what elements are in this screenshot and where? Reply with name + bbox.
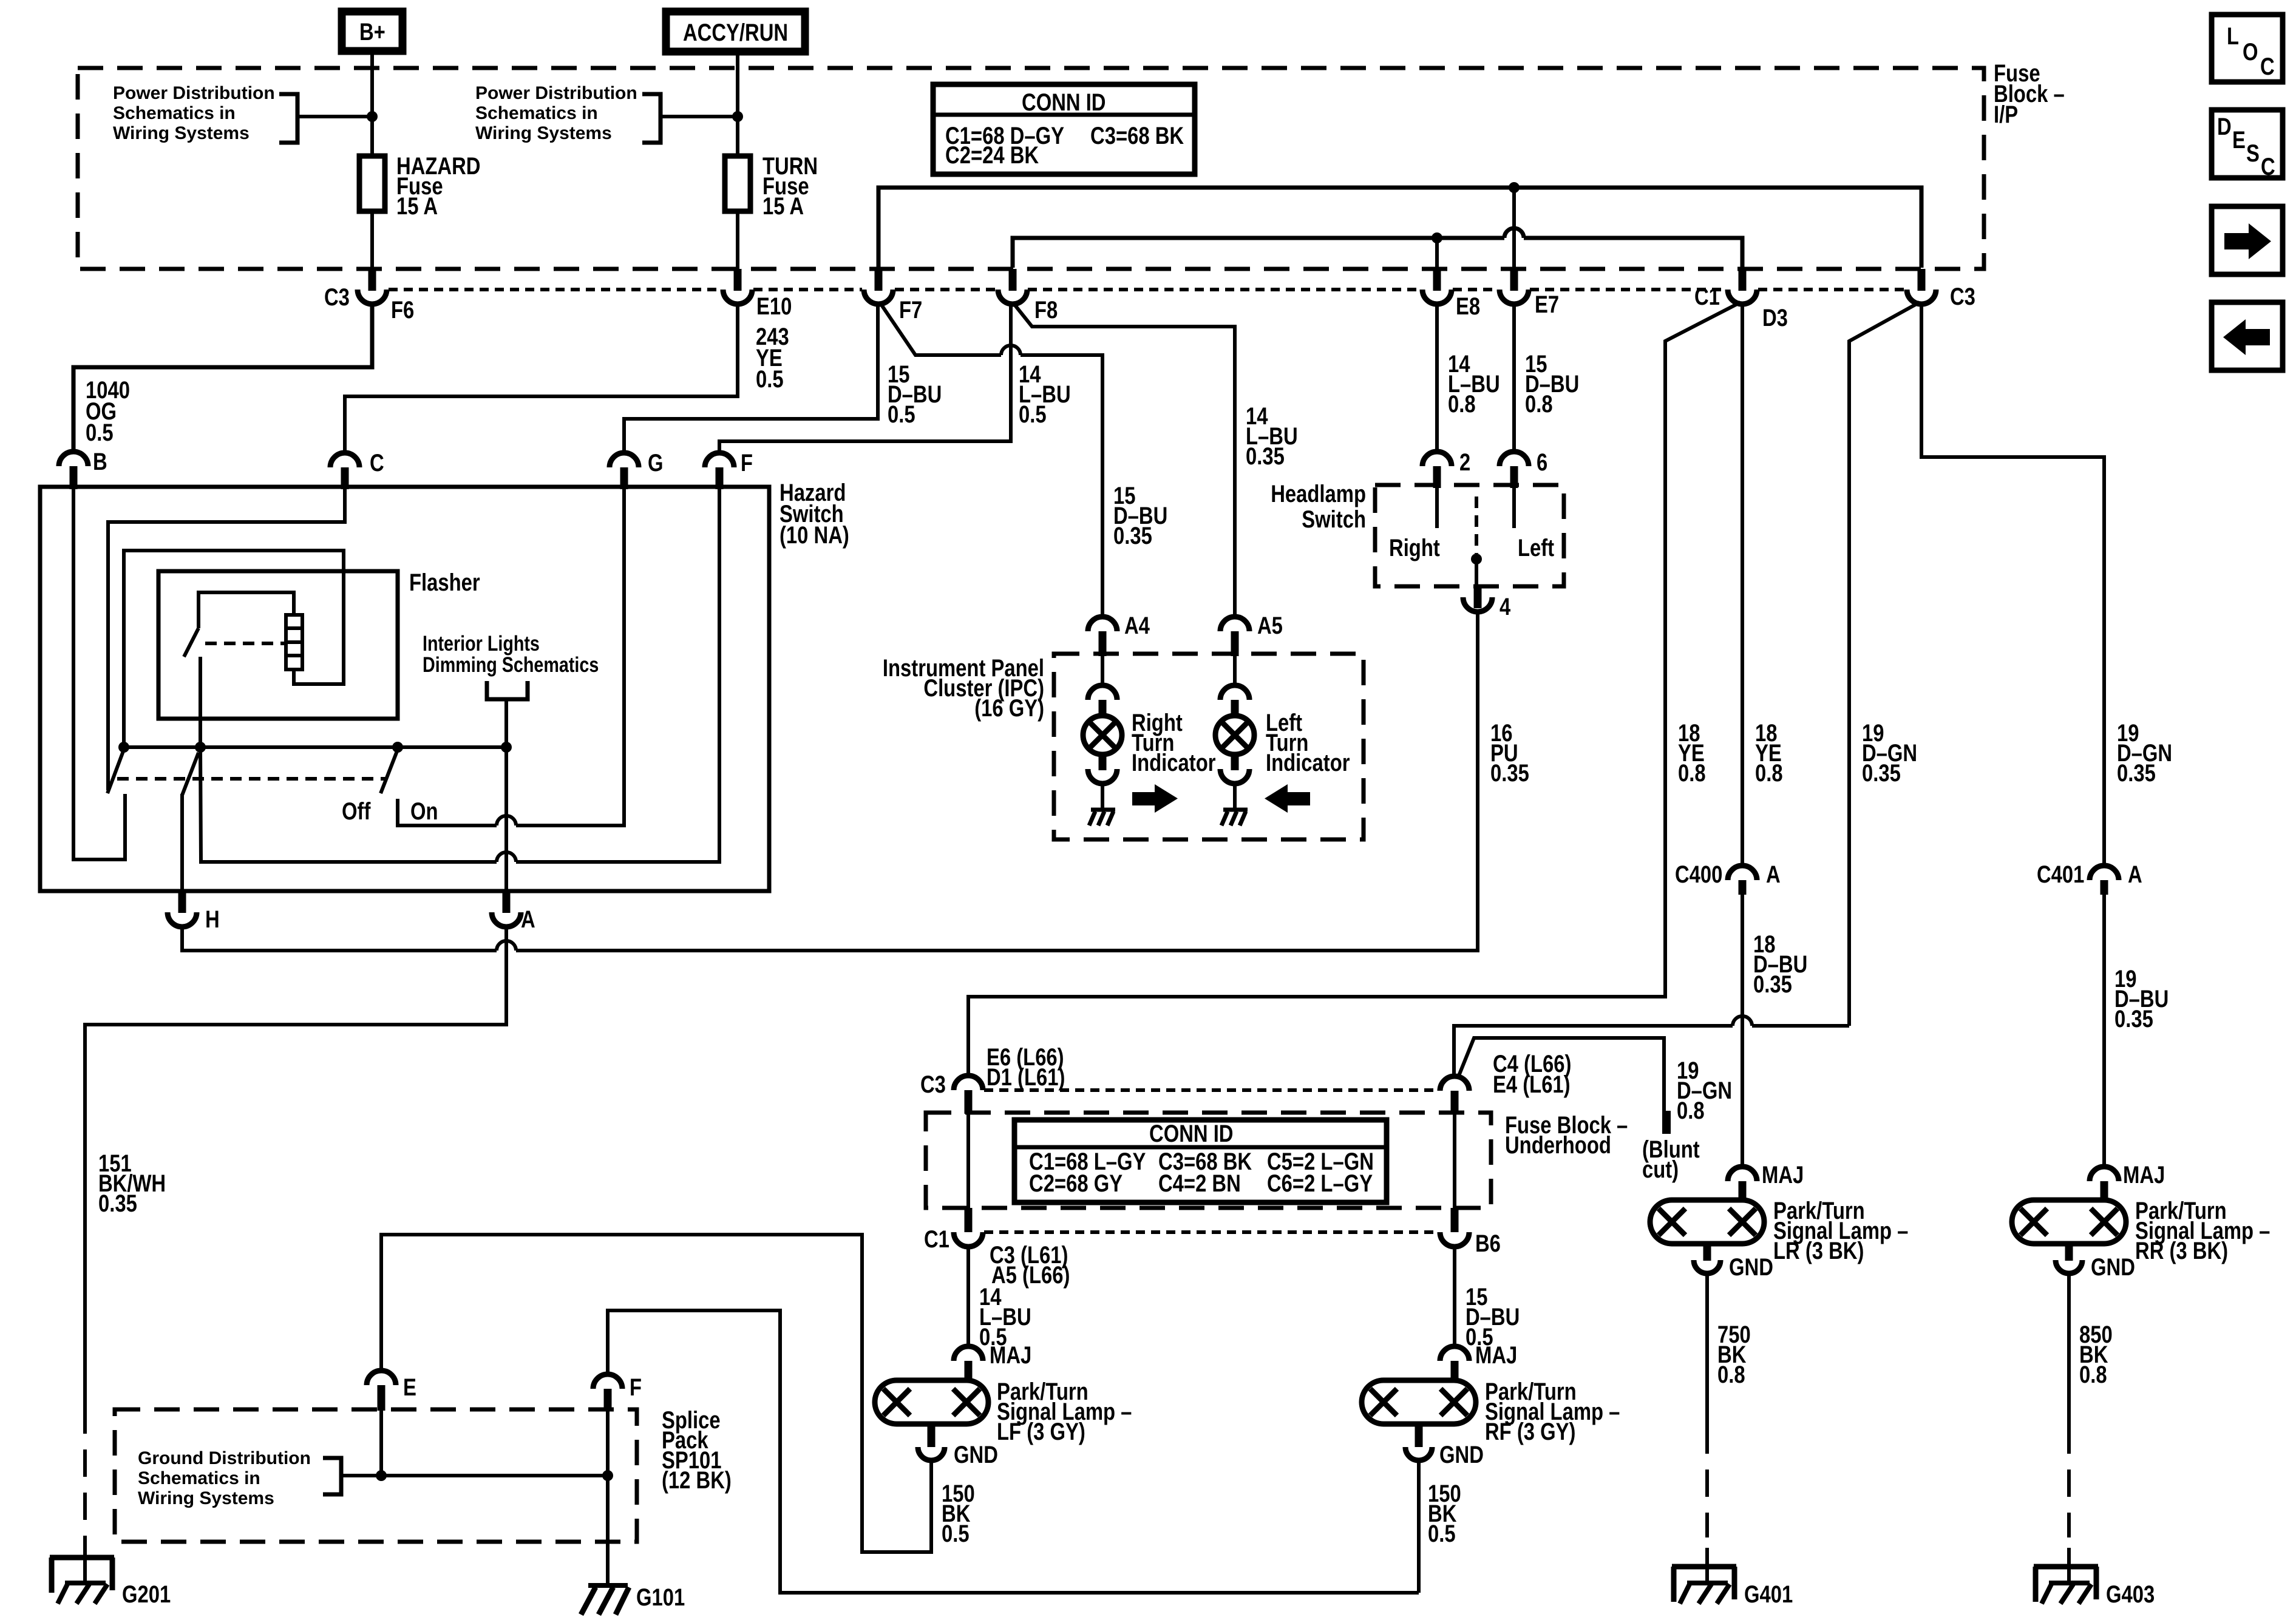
svg-text:H: H [205,906,220,933]
connector MAJ RF [1440,1342,1517,1381]
connector A5 [1220,612,1283,656]
svg-text:0.5: 0.5 [1019,401,1047,428]
connector GND RR [2056,1244,2135,1281]
wire E4 diagonal feed to blunt cut [1458,1038,1664,1111]
label 18 D-BU 0.35 [1753,931,1807,998]
connector 6 [1500,449,1547,488]
svg-text:GND: GND [954,1442,998,1468]
junction blade1 pivot [118,742,129,753]
svg-text:Dimming Schematics: Dimming Schematics [423,653,599,677]
flasher heater resistor [286,615,302,670]
connector MAJ LF [954,1342,1031,1381]
wire B inside to contact stub [73,489,125,859]
junction B+ feed [367,111,378,122]
svg-text:0.5: 0.5 [888,401,915,428]
wire blade2 to H [180,794,184,891]
wire E pin to splice bus [379,1409,383,1476]
wire bracket stem to A node [504,699,508,747]
headlamp contact stubs [1435,488,1439,528]
bracket right power distribution [642,94,661,143]
dotted row underhood top [984,1088,1439,1092]
label 15 D-BU 0.8 [1525,351,1579,418]
ground G401 [1672,1548,1793,1608]
connector C400 [1675,861,1781,895]
svg-text:Schematics in: Schematics in [475,103,598,123]
svg-text:C401: C401 [2037,861,2084,888]
svg-text:C3: C3 [920,1071,946,1098]
wire E7 up [1512,188,1516,270]
label Fuse Block - Underhood [1505,1112,1628,1159]
junction blade2 contact [195,742,206,753]
svg-text:E10: E10 [756,293,792,320]
svg-text:C3: C3 [1950,283,1975,310]
svg-text:G201: G201 [122,1581,171,1608]
connector GND LR [1694,1244,1773,1281]
lamp park/turn LF [875,1380,988,1424]
wire pin4 to H line [1476,612,1479,951]
connector E4 underhood top (C4/E4) [1440,1051,1571,1114]
label 18 YE 0.8 second [1755,720,1783,787]
svg-text:A5 (L66): A5 (L66) [991,1262,1070,1289]
svg-text:0.35: 0.35 [1490,760,1529,787]
svg-text:F7: F7 [899,297,922,324]
flasher box [158,571,398,719]
svg-text:C2=68 GY: C2=68 GY [1029,1170,1123,1197]
svg-text:I/P: I/P [1994,101,2018,128]
label 243 YE 0.5 [756,324,789,393]
ground G201 [50,1545,171,1608]
flasher blade [184,628,199,657]
svg-text:Flasher: Flasher [409,569,480,596]
wire LR dashed to G401 [1705,1426,1709,1537]
svg-text:0.35: 0.35 [1113,523,1152,549]
connector C1/D3 [1694,269,1788,331]
CONN ID table I/P [933,84,1195,174]
label Ground Distribution Schematics in Wiring Systems [138,1448,311,1508]
junction E8 on wire B [1432,232,1442,243]
wire GND RF to F loop bottom [1417,1460,1421,1593]
label 19 D-GN 0.35 second [2117,720,2172,787]
left turn indicator bulb [1215,656,1254,810]
wire H to headlamp pin4 line, hop over A [182,623,1478,951]
svg-text:GND: GND [1729,1254,1773,1281]
wire C1 down to C400 [1741,304,1744,866]
svg-text:E4 (L61): E4 (L61) [1493,1071,1571,1098]
svg-text:C1: C1 [924,1226,949,1253]
svg-text:C1: C1 [1694,283,1720,310]
label 1040 OG 0.5 [86,377,130,446]
label Splice Pack SP101 (12 BK) [662,1407,732,1494]
bracket left power distribution [279,94,297,143]
svg-text:0.35: 0.35 [2117,760,2156,787]
wire C400 down to LR lamp [1741,895,1744,1167]
wire A : F7 to C3 right [878,188,1921,268]
svg-text:Off: Off [342,798,371,825]
svg-text:(16 GY): (16 GY) [974,695,1044,722]
connector C1 underhood bottom [924,1208,1070,1289]
svg-text:D1 (L61): D1 (L61) [987,1064,1065,1091]
arrow right icon [1132,784,1178,813]
ground IPC right bulb [1089,810,1115,825]
flasher coil feed wire [199,592,294,628]
nav box DESC [2212,110,2283,180]
connector C401 [2037,861,2142,895]
wire GND RR down [2067,1273,2071,1426]
svg-text:G403: G403 [2106,1581,2155,1608]
svg-text:Headlamp: Headlamp [1271,481,1366,507]
wire E7 down to headlamp pin 6 [1512,304,1516,453]
label 15 D-BU 0.5 [888,361,942,428]
wire E8 down to headlamp pin 2 [1435,304,1439,453]
junction F splice [602,1470,613,1481]
svg-text:CONN ID: CONN ID [1149,1120,1234,1147]
wire A down left to 151 BK/WH [85,927,506,1406]
svg-text:Right: Right [1389,535,1440,561]
svg-text:GND: GND [2091,1254,2135,1281]
junction ACCY feed [732,111,743,122]
connector F8 [998,269,1058,324]
svg-text:Switch: Switch [1302,506,1366,533]
svg-text:Wiring Systems: Wiring Systems [475,123,612,143]
svg-text:C400: C400 [1675,861,1722,888]
wire F pin to G101 [606,1411,610,1585]
svg-text:GND: GND [1439,1442,1484,1468]
wire C3 down right to C401 [1921,304,2104,866]
svg-text:0.5: 0.5 [86,419,114,446]
svg-text:LF (3 GY): LF (3 GY) [997,1419,1085,1445]
svg-text:Interior Lights: Interior Lights [423,632,540,656]
svg-text:Indicator: Indicator [1266,750,1350,776]
wire E4 feed horizontal 19 D-GN, hop over C400 wire [1454,1016,1849,1077]
connector C3/F6 [324,269,414,324]
wire A node down to connector A [504,747,508,891]
lamp park/turn RR [2012,1200,2126,1244]
svg-text:0.8: 0.8 [1677,1097,1705,1124]
svg-text:4: 4 [1500,594,1511,620]
blade2 [182,753,199,795]
svg-text:0.5: 0.5 [1428,1520,1456,1547]
label 19 D-GN 0.35 first [1862,720,1917,787]
wire F7 to G (vertical + left) [624,303,878,453]
power box B+ [342,12,402,51]
blunt cut terminal [1662,1111,1671,1134]
wire GND LF to E loop [381,1235,931,1552]
hazard common line [124,745,506,749]
svg-text:O: O [2243,39,2258,66]
label 15 D-BU 0.5 under B6 [1466,1284,1520,1351]
connector C3 right [1907,269,1975,310]
connector C [330,450,384,489]
blade3 [381,750,398,793]
label Park/Turn Signal Lamp - RF (3 GY) [1485,1378,1620,1445]
switch mech dashed link [117,777,387,781]
svg-text:On: On [410,798,438,825]
svg-text:RR (3 BK): RR (3 BK) [2135,1238,2228,1264]
svg-text:C3=68 BK: C3=68 BK [1090,123,1184,149]
label 850 BK 0.8 [2079,1321,2113,1388]
svg-text:0.5: 0.5 [942,1520,970,1547]
svg-text:E: E [2232,127,2246,154]
label power distribution left [113,83,275,143]
label 19 D-GN 0.8 [1677,1057,1732,1124]
wire E10 to C [345,304,738,453]
wire C3 to C1 inside box [966,1114,970,1208]
svg-text:G: G [648,450,664,476]
svg-text:Power Distribution: Power Distribution [475,83,637,103]
connector MAJ LR [1728,1162,1804,1202]
wire RR dashed to G403 [2067,1426,2071,1537]
IPC dashed box [1054,654,1364,839]
svg-text:C4=2 BN: C4=2 BN [1158,1170,1241,1197]
connector row dotted line [389,288,1906,291]
wire flasher feed loop (C node to resistor bottom / blade1 pivot) [124,551,344,744]
wire E8 up [1435,238,1439,270]
svg-text:S: S [2246,140,2260,167]
wire wiper to pin 4 [1475,559,1478,588]
svg-text:MAJ: MAJ [1762,1162,1804,1188]
label Hazard Switch (10 NA) [779,480,849,549]
label Park/Turn Signal Lamp - LR (3 BK) [1773,1198,1908,1264]
svg-text:0.8: 0.8 [2079,1361,2107,1388]
label 19 D-BU 0.35 [2114,966,2169,1032]
svg-text:E: E [403,1374,416,1401]
svg-text:0.8: 0.8 [1755,760,1783,787]
headlamp switch dashed box [1375,485,1564,586]
headlamp wiper dashed [1475,497,1478,554]
nav box arrow left [2212,302,2283,370]
connector 4 [1463,586,1511,620]
svg-text:Schematics in: Schematics in [138,1468,260,1488]
svg-text:MAJ: MAJ [2123,1162,2165,1188]
svg-text:MAJ: MAJ [1475,1342,1517,1369]
svg-text:C3: C3 [324,284,350,311]
svg-text:B6: B6 [1475,1230,1501,1257]
svg-text:Power Distribution: Power Distribution [113,83,275,103]
label (Blunt cut) [1642,1136,1700,1183]
label 14 L-BU 0.5 under C1 [979,1284,1031,1351]
junction A node [501,742,512,753]
junction E splice [376,1470,387,1481]
wire C inside to blade1 contact [108,489,345,790]
label 14 L-BU 0.35 [1246,403,1298,470]
svg-text:A: A [1766,861,1781,888]
ground IPC left bulb [1221,810,1248,825]
svg-text:D3: D3 [1762,305,1788,331]
svg-text:B: B [93,449,107,475]
connector E splice [367,1371,416,1411]
wire bracket to B+ feed [297,115,372,118]
wire flasher post to F, hop over A [200,489,719,862]
label 151 BK/WH 0.35 [98,1150,166,1217]
connector F7 [864,269,922,324]
fuse TURN 15A [725,153,818,220]
connector GND LF [918,1424,998,1468]
blade1 [107,750,124,793]
wire hazard fuse to F6 [370,211,374,270]
lamp park/turn RF [1362,1380,1476,1424]
connector C3 underhood top (E6/D1) [920,1044,1065,1114]
svg-text:0.8: 0.8 [1678,760,1706,787]
label Right Turn Indicator [1132,710,1216,776]
hazard switch box [40,487,769,891]
splice bus wire [341,1474,608,1477]
wire B+ down [370,51,374,156]
svg-text:(12 BK): (12 BK) [662,1467,732,1494]
svg-text:C: C [370,450,384,476]
lamp park/turn LR [1650,1200,1764,1244]
svg-text:15 A: 15 A [763,193,804,220]
svg-text:G101: G101 [636,1584,685,1611]
svg-text:cut): cut) [1642,1156,1679,1183]
dotted row underhood bottom [984,1230,1439,1234]
connector F hazard [705,450,753,489]
svg-text:ACCY/RUN: ACCY/RUN [683,19,788,46]
flasher contact post [199,657,202,747]
svg-text:0.8: 0.8 [1525,391,1553,418]
label Park/Turn Signal Lamp - RR (3 BK) [2135,1198,2270,1264]
bracket interior lights dimming [487,681,528,699]
label Left Turn Indicator [1266,710,1350,776]
svg-text:C2=24 BK: C2=24 BK [945,142,1039,169]
svg-text:L: L [2227,23,2239,50]
flasher mech dashed link [205,642,284,645]
svg-text:Schematics in: Schematics in [113,103,236,123]
power box ACCY/RUN [666,12,805,52]
wire GND LR down [1705,1273,1709,1426]
connector G [610,450,664,489]
svg-text:A: A [521,906,535,933]
connector B6 underhood bottom [1440,1208,1501,1257]
svg-text:0.35: 0.35 [1753,971,1792,998]
label Fuse Block - I/P [1994,60,2065,128]
svg-text:15 A: 15 A [396,193,438,220]
svg-text:2: 2 [1459,449,1470,476]
connector MAJ RR [2090,1162,2165,1202]
connector F splice [593,1374,642,1411]
fuse HAZARD 15A [359,153,481,220]
svg-text:0.35: 0.35 [1862,760,1901,787]
label Park/Turn Signal Lamp - LF (3 GY) [997,1378,1132,1445]
wire ACCY down [736,52,739,156]
nav box arrow right [2212,206,2283,274]
svg-text:B+: B+ [359,19,385,46]
connector A [492,891,535,933]
svg-text:A: A [2128,861,2142,888]
svg-text:Indicator: Indicator [1132,750,1216,776]
svg-text:0.35: 0.35 [98,1190,137,1217]
wire C3 diagonal to 19DGN vertical [1849,302,1920,1026]
svg-text:A5: A5 [1257,612,1283,639]
svg-text:E7: E7 [1535,291,1559,318]
connector A4 [1088,612,1150,656]
connector 2 [1422,449,1470,488]
svg-text:F6: F6 [391,297,414,324]
svg-text:RF (3 GY): RF (3 GY) [1485,1419,1575,1445]
wire B : F8 to C1 right, hop over E7 [1013,228,1742,268]
fuse block I/P dashed box [78,68,1984,269]
svg-text:0.35: 0.35 [1246,443,1285,470]
wire F6 to B [73,304,372,452]
svg-text:0.5: 0.5 [756,366,784,393]
connector E10 [723,269,792,320]
wire 151 dashed to G201 [83,1406,87,1545]
svg-text:(10 NA): (10 NA) [779,522,849,549]
On contact stub wire to G, hop over A [398,489,624,825]
svg-text:G401: G401 [1744,1581,1793,1608]
svg-text:C6=2 L–GY: C6=2 L–GY [1267,1170,1373,1197]
svg-text:Ground Distribution: Ground Distribution [138,1448,311,1468]
label power distribution right [475,83,637,143]
junction wiper [1471,554,1482,564]
wire C1 to 18YE vertical and C3-underhood [968,302,1741,1076]
wire F8 to F (vertical + left) [719,303,1011,453]
label 14 L-BU 0.8 [1448,351,1500,418]
wire bracket to ACCY feed [661,115,738,118]
wire C401 down to RR lamp [2102,895,2106,1167]
nav box LOC [2212,15,2283,82]
label 14 L-BU 0.5 [1019,361,1071,428]
connector H [168,891,220,933]
connector B [59,449,107,489]
CONN ID table underhood [1014,1120,1387,1202]
svg-text:0.35: 0.35 [2114,1006,2153,1032]
label 18 YE 0.8 first [1678,720,1706,787]
label 15 D-BU 0.35 [1113,483,1167,549]
right turn indicator bulb [1083,656,1122,810]
svg-text:F: F [630,1374,642,1401]
svg-text:0.8: 0.8 [1448,391,1476,418]
svg-text:F8: F8 [1034,297,1058,324]
svg-text:MAJ: MAJ [990,1342,1031,1369]
label Instrument Panel Cluster (IPC) (16 GY) [883,655,1044,722]
svg-text:Left: Left [1518,535,1554,561]
ground G403 [2034,1548,2155,1608]
svg-text:D: D [2217,114,2232,140]
wire C1 to LF MAJ [966,1247,970,1347]
svg-text:A4: A4 [1124,612,1150,639]
svg-text:C: C [2261,154,2275,180]
label 150 BK 0.5 RF [1428,1480,1461,1547]
svg-text:Wiring Systems: Wiring Systems [113,123,250,143]
label 16 PU 0.35 [1490,720,1529,787]
svg-text:Wiring Systems: Wiring Systems [138,1488,274,1508]
svg-text:6: 6 [1537,449,1547,476]
junction E7 on wire A [1509,182,1520,193]
ground G101 [581,1584,685,1615]
label 150 BK 0.5 LF [942,1480,975,1547]
connector GND RF [1405,1424,1484,1468]
junction blade3 contact [392,742,403,753]
connector E7 [1500,269,1559,318]
wire F7 diagonal to A4 feed, hop over F8 [880,302,1102,617]
connector E8 [1422,269,1480,320]
svg-text:C: C [2260,53,2275,80]
label Headlamp Switch [1271,481,1366,533]
splice pack dashed box [115,1409,637,1542]
arrow left icon [1265,784,1310,813]
wire B6 to RF MAJ [1453,1247,1456,1347]
svg-text:0.8: 0.8 [1717,1361,1745,1388]
svg-text:Underhood: Underhood [1505,1132,1611,1159]
svg-text:E8: E8 [1456,293,1480,320]
wire F splice feed from RF ground loop [608,1310,1419,1593]
label 750 BK 0.8 [1717,1321,1751,1388]
bracket ground distribution [323,1458,341,1494]
svg-text:CONN ID: CONN ID [1022,89,1106,116]
wire E4 to B6 inside box [1453,1114,1456,1208]
underhood fuse block dashed box [926,1113,1491,1208]
wire turn fuse to E10 [736,211,739,270]
